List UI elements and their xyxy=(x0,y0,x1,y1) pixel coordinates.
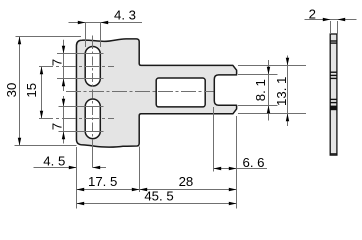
svg-text:8. 1: 8. 1 xyxy=(253,79,268,101)
dim 6.6 arrows xyxy=(214,167,222,170)
17.5 / 28 dim xyxy=(77,189,237,191)
svg-text:28: 28 xyxy=(179,174,194,189)
thin lines xyxy=(15,20,357,209)
dim 28 arrows xyxy=(140,188,148,191)
centerlines xyxy=(66,91,214,93)
svg-text:6. 6: 6. 6 xyxy=(243,155,265,170)
dim 17.5 arrows xyxy=(77,188,85,191)
dim 15 arrows xyxy=(40,67,43,75)
45.5 dim xyxy=(77,203,237,205)
svg-text:17. 5: 17. 5 xyxy=(88,174,117,189)
side view strip xyxy=(330,34,337,155)
svg-text:7: 7 xyxy=(49,59,64,66)
dim 2 arrows xyxy=(323,18,331,21)
dim 7 upper arrows xyxy=(62,46,65,54)
window xyxy=(156,78,205,107)
lower slot xyxy=(85,99,100,139)
dim 8.1 arrows xyxy=(267,67,270,75)
dim 4.5 arrows xyxy=(69,166,77,169)
dim 13.1 arrows xyxy=(286,58,289,66)
svg-text:4. 5: 4. 5 xyxy=(43,154,65,169)
13.1 dim xyxy=(287,56,289,127)
7 upper xyxy=(63,40,65,91)
upper slot xyxy=(85,46,100,86)
4.5 dim xyxy=(34,167,77,169)
svg-text:13. 1: 13. 1 xyxy=(274,77,289,106)
dim 45.5 arrows xyxy=(77,202,85,205)
2 dim xyxy=(305,19,357,21)
svg-text:7: 7 xyxy=(49,123,64,130)
30 dim xyxy=(19,37,21,146)
6.6 dim xyxy=(214,168,268,170)
part main view outline xyxy=(76,39,236,147)
8.1 dim xyxy=(268,60,270,121)
arrows xyxy=(18,18,345,205)
svg-text:45. 5: 45. 5 xyxy=(144,189,173,204)
svg-text:30: 30 xyxy=(4,83,19,98)
svg-text:4. 3: 4. 3 xyxy=(114,7,136,22)
7 lower xyxy=(63,96,65,144)
svg-text:15: 15 xyxy=(24,83,39,98)
15 dim xyxy=(41,67,43,119)
dim 30 arrows xyxy=(18,37,21,45)
bottom extension lines xyxy=(76,147,78,209)
svg-text:2: 2 xyxy=(309,7,316,22)
dim 4.3 arrows xyxy=(78,21,86,24)
4.3 dim xyxy=(69,22,143,24)
dim 7 lower arrows xyxy=(62,99,65,107)
